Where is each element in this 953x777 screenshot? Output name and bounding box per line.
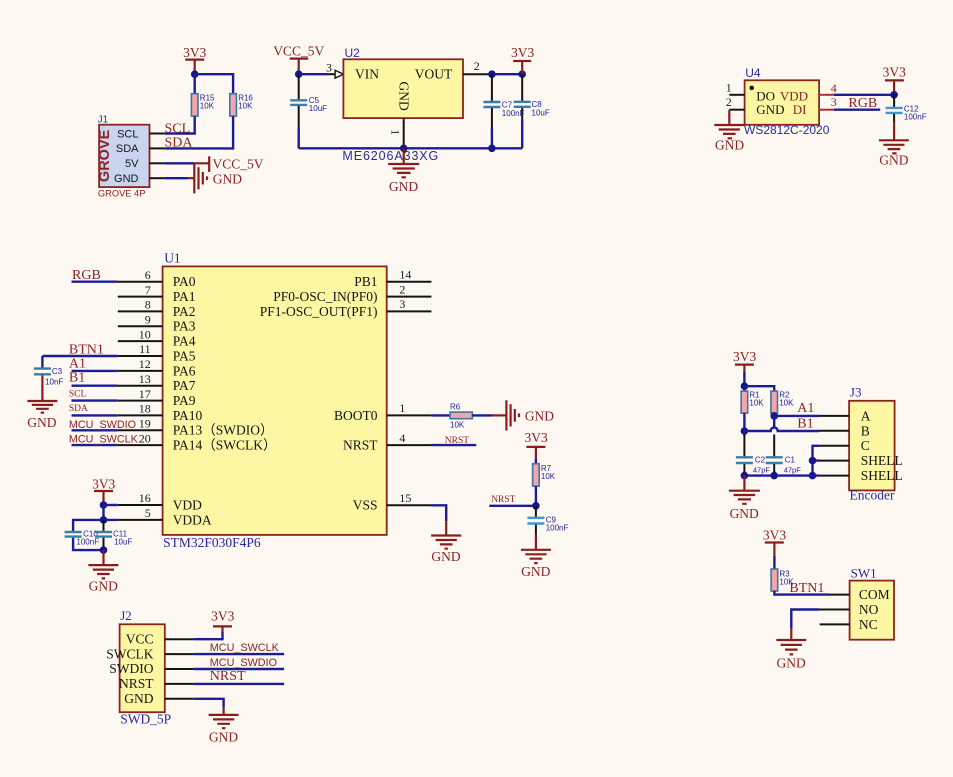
svg-text:B1: B1	[797, 417, 813, 432]
svg-text:SHELL: SHELL	[861, 453, 903, 468]
wire R6 to ground flag	[472, 414, 492, 416]
pin 2 PF0-OSC_IN of U1	[387, 282, 432, 296]
power flag VCC_5V (at U2 input)	[273, 44, 324, 74]
svg-text:100nF: 100nF	[76, 538, 99, 547]
ground symbol (below C3)	[27, 375, 57, 429]
junction node SHELL2	[809, 472, 817, 480]
pin 12 PA6 of U1	[118, 357, 163, 371]
wire net SCL to PA9	[72, 399, 118, 401]
svg-text:GND: GND	[525, 409, 554, 424]
pin 7 PA1 of U1	[118, 283, 163, 297]
pin 14 PB1 of U1	[387, 268, 432, 282]
svg-text:GND: GND	[431, 549, 460, 564]
wire net B1 to pin B of J3 (hop over R2 line)	[744, 428, 819, 432]
svg-text:U4: U4	[745, 66, 761, 80]
pin 9 PA3 of U1	[118, 313, 163, 327]
wire 3V3 junction to R16 top	[195, 74, 233, 94]
pin 2 SWCLK of J2	[165, 653, 194, 655]
wire net MCU_SWCLK to PA14	[72, 444, 118, 446]
wire 5V pin to VCC_5V flag	[164, 162, 194, 164]
svg-text:SCL: SCL	[165, 122, 191, 137]
svg-text:DI: DI	[793, 102, 807, 117]
svg-text:20: 20	[139, 431, 151, 445]
switch SW1	[850, 565, 894, 639]
pin B of J3	[819, 430, 849, 432]
svg-text:NC: NC	[859, 617, 878, 632]
ground flag (at R6, right-pointing)	[492, 400, 554, 430]
capacitor C3 10nF	[34, 356, 64, 387]
svg-text:GND: GND	[397, 82, 412, 111]
ground symbol (below SW1)	[776, 628, 806, 671]
svg-text:GND: GND	[114, 173, 139, 185]
svg-text:3: 3	[399, 297, 405, 311]
svg-text:12: 12	[139, 357, 151, 371]
svg-text:BTN1: BTN1	[69, 343, 104, 358]
capacitor C8 10uF	[514, 74, 550, 148]
wire GND pin of J1 to ground	[164, 177, 188, 179]
svg-text:A1: A1	[69, 356, 86, 371]
ground symbol (below VSS)	[431, 521, 461, 564]
svg-text:MCU_SWCLK: MCU_SWCLK	[69, 434, 139, 446]
svg-text:NRST: NRST	[119, 676, 154, 691]
wire SHELL1 row	[813, 459, 820, 461]
pin 5 VDDA of U1	[118, 506, 163, 520]
junction node 3V3/R15/R16	[191, 70, 199, 78]
junction node R2/A1	[770, 412, 778, 420]
svg-text:SCL: SCL	[117, 128, 138, 140]
svg-text:MCU_SWDIO: MCU_SWDIO	[69, 419, 136, 431]
svg-text:NRST: NRST	[445, 436, 469, 446]
junction node C10/C11/ground	[100, 546, 108, 554]
resistor R2 10K	[771, 391, 794, 413]
power flag 3V3 (at SW1/R3)	[763, 527, 786, 556]
pin 4 VDD of U4	[819, 81, 837, 95]
svg-text:47pF: 47pF	[784, 466, 802, 475]
wire net B1 to PA7	[72, 385, 118, 387]
svg-text:GROVE: GROVE	[97, 129, 113, 182]
svg-text:100nF: 100nF	[546, 524, 569, 533]
svg-text:10K: 10K	[450, 420, 465, 429]
resistor R16 10K	[230, 93, 254, 116]
junction node VOUT/C7	[488, 70, 496, 78]
pin 10 PA4 of U1	[118, 327, 163, 341]
wire R1 bottom to B row junction	[743, 413, 745, 431]
svg-text:10K: 10K	[200, 101, 215, 110]
svg-text:GND: GND	[124, 691, 153, 706]
svg-text:PA6: PA6	[173, 363, 196, 378]
svg-text:VDD: VDD	[780, 88, 808, 103]
wire VCC_5V junction to U2 VIN pin	[299, 73, 327, 75]
wire ground rail under J3	[744, 474, 819, 476]
ground symbol (below C10/C11)	[88, 550, 118, 593]
junction node 3V3/C8	[518, 70, 526, 78]
pin 5 GND of J2	[165, 698, 194, 700]
svg-text:VCC_5V: VCC_5V	[213, 157, 264, 172]
svg-text:C: C	[861, 438, 870, 453]
wire R2 bottom to A row junction	[773, 413, 775, 416]
svg-text:VCC: VCC	[126, 631, 154, 646]
svg-text:100nF: 100nF	[502, 109, 525, 118]
svg-text:10: 10	[139, 327, 151, 341]
wire net MCU_SWCLK (at J2)	[194, 653, 284, 655]
pin SHELL1 of J3	[819, 460, 849, 462]
svg-text:J1: J1	[98, 114, 109, 125]
wire BOOT0 to R6	[431, 414, 450, 416]
wire R16 bottom to SDA pin of J1	[164, 116, 233, 148]
pin 4 NRST of U1	[387, 431, 432, 445]
svg-text:C1: C1	[785, 456, 796, 465]
svg-text:3: 3	[831, 95, 837, 109]
wire 3V3 to R7 top	[535, 459, 537, 464]
ground flag (J1, right-pointing)	[188, 163, 242, 193]
wire net BTN1 to PA5 (with C3 branch)	[42, 355, 117, 357]
svg-text:J2: J2	[120, 608, 132, 623]
svg-text:2: 2	[474, 59, 480, 73]
svg-text:PA14（SWCLK）: PA14（SWCLK）	[173, 438, 277, 453]
svg-text:100nF: 100nF	[904, 113, 927, 122]
svg-text:GND: GND	[756, 102, 784, 117]
svg-text:10K: 10K	[541, 472, 556, 481]
capacitor C5 10uF	[290, 74, 327, 148]
pin 17 PA9 of U1	[118, 387, 163, 401]
svg-text:10K: 10K	[238, 101, 253, 110]
wire VDDA junction to pin and left branch to C10	[73, 520, 118, 532]
svg-text:14: 14	[399, 268, 411, 282]
svg-text:PF0-OSC_IN(PF0): PF0-OSC_IN(PF0)	[273, 289, 377, 304]
svg-text:ME6206A33XG: ME6206A33XG	[342, 149, 439, 163]
resistor R6 10K	[450, 403, 472, 430]
wire junction to R2 top	[744, 386, 774, 391]
wire net NRST (at J2)	[194, 683, 284, 685]
svg-text:BTN1: BTN1	[789, 581, 824, 596]
svg-text:3: 3	[326, 61, 332, 75]
ground symbol (below U4)	[714, 125, 744, 152]
svg-text:16: 16	[139, 491, 151, 505]
svg-text:PA3: PA3	[173, 319, 196, 334]
wire 3V3 to R3 top	[773, 556, 775, 569]
svg-text:PA9: PA9	[173, 393, 196, 408]
svg-text:10K: 10K	[779, 399, 794, 408]
capacitor C10 100nF	[65, 530, 104, 551]
svg-text:1: 1	[388, 129, 402, 135]
LED U4 WS2812C-2020	[744, 66, 830, 137]
svg-text:3V3: 3V3	[883, 65, 906, 80]
junction node C7 / rail	[488, 145, 496, 153]
svg-text:C2: C2	[755, 456, 766, 465]
ground symbol (below J2)	[209, 707, 239, 745]
svg-text:3V3: 3V3	[511, 45, 534, 60]
svg-text:NRST: NRST	[343, 438, 378, 453]
svg-text:J3: J3	[850, 385, 862, 400]
capacitor C2 47pF	[736, 456, 771, 476]
pin 11 PA5 of U1	[118, 342, 163, 356]
connector J2 SWD_5P	[106, 608, 171, 727]
svg-text:NO: NO	[859, 602, 879, 617]
power flag 3V3 (at J3 pullups)	[733, 349, 756, 372]
svg-text:GND: GND	[715, 137, 744, 152]
svg-text:GND: GND	[776, 656, 805, 671]
svg-text:PA5: PA5	[173, 348, 196, 363]
pin 2 GND of U4	[726, 95, 745, 110]
svg-text:3V3: 3V3	[733, 349, 756, 364]
svg-text:47pF: 47pF	[753, 466, 771, 475]
wire NO pin to ground	[791, 610, 819, 629]
svg-text:3V3: 3V3	[92, 477, 115, 492]
pin NC of SW1 (unconnected stub)	[820, 623, 850, 625]
capacitor C1 47pF	[766, 456, 802, 476]
power flag 3V3 (at R7)	[524, 430, 547, 459]
connector J1 GROVE 4P	[97, 114, 150, 198]
svg-text:18: 18	[139, 402, 151, 416]
wire net NRST (at R7/C9)	[489, 505, 536, 507]
svg-text:Encoder: Encoder	[850, 488, 895, 503]
svg-text:GND: GND	[389, 179, 418, 194]
svg-text:10K: 10K	[749, 399, 764, 408]
svg-text:SWDIO: SWDIO	[109, 661, 153, 676]
wire net NRST (at U1 pin 4)	[431, 444, 476, 446]
wire net MCU_SWDIO (at J2)	[194, 668, 284, 670]
wire VCC to 3V3 flag	[194, 632, 223, 639]
svg-text:VDD: VDD	[173, 497, 202, 512]
wire 3V3 to R1/R2 junction	[743, 372, 745, 386]
svg-text:9: 9	[145, 313, 151, 327]
svg-text:PA7: PA7	[173, 378, 196, 393]
svg-text:NRST: NRST	[210, 669, 246, 684]
capacitor C9 100nF	[527, 506, 568, 535]
pin 2 VOUT of U2	[463, 59, 489, 74]
svg-text:WS2812C-2020: WS2812C-2020	[744, 123, 830, 137]
svg-text:5: 5	[145, 506, 151, 520]
pin 3 DI of U4	[819, 95, 837, 110]
svg-text:MCU_SWCLK: MCU_SWCLK	[210, 642, 280, 654]
connector J3 Encoder	[849, 385, 903, 503]
svg-text:SDA: SDA	[165, 136, 194, 151]
pin A of J3	[819, 415, 849, 417]
wire U4 pin2 down to ground	[728, 110, 730, 125]
resistor R3 10K	[771, 569, 794, 591]
pin 1 GND of U2	[388, 118, 403, 148]
pin 8 PA2 of U1	[118, 298, 163, 312]
svg-text:VCC_5V: VCC_5V	[273, 44, 324, 59]
pin 3 PF1-OSC_OUT of U1	[387, 297, 432, 311]
wire GND pin of J2 to ground	[194, 699, 224, 707]
svg-text:4: 4	[831, 81, 837, 95]
svg-text:8: 8	[145, 298, 151, 312]
svg-text:GND: GND	[879, 153, 908, 168]
pin 19 PA13 of U1	[118, 417, 163, 431]
wire net MCU_SWDIO to PA13	[72, 429, 118, 431]
pin C of J3	[819, 445, 849, 447]
wire DI pin (net RGB)	[834, 108, 880, 110]
svg-text:VIN: VIN	[355, 66, 379, 81]
svg-text:10uF: 10uF	[532, 108, 550, 117]
svg-text:10uF: 10uF	[114, 538, 132, 547]
svg-text:2: 2	[726, 95, 732, 109]
pin 4 NRST of J2	[165, 683, 194, 685]
svg-text:GND: GND	[730, 506, 759, 521]
svg-text:SCL: SCL	[69, 390, 87, 400]
junction node C1/rail	[770, 472, 778, 480]
wire R1 line down to C2	[743, 431, 745, 436]
svg-text:PA4: PA4	[173, 334, 196, 349]
power flag VCC_5V (at J1)	[194, 156, 263, 172]
svg-text:4: 4	[399, 431, 405, 445]
resistor R7 10K	[533, 464, 556, 486]
wire R7 bottom to NRST junction	[535, 486, 537, 506]
pin 3 SWDIO of J2	[165, 668, 194, 670]
svg-text:VDDA: VDDA	[173, 512, 212, 527]
junction node U2 GND pin / rail	[400, 145, 408, 153]
pin 3 5V of J1	[150, 162, 165, 164]
pin 16 VDD of U1	[118, 491, 163, 505]
capacitor C11 10uF	[95, 520, 132, 550]
junction node 3V3/R1/R2	[741, 382, 749, 390]
ground symbol (below C12)	[879, 122, 909, 168]
junction node R1/B1	[741, 427, 749, 435]
pin 18 PA10 of U1	[118, 402, 163, 416]
svg-text:7: 7	[145, 283, 151, 297]
svg-text:6: 6	[145, 268, 151, 282]
pin 2 SDA of J1	[150, 147, 165, 149]
power flag 3V3 (at U4/C12)	[883, 65, 906, 95]
svg-text:SDA: SDA	[69, 404, 88, 414]
svg-text:PA10: PA10	[173, 408, 203, 423]
svg-text:SWCLK: SWCLK	[106, 646, 154, 661]
svg-text:PA2: PA2	[173, 304, 196, 319]
svg-text:COM: COM	[859, 587, 890, 602]
svg-text:19: 19	[139, 417, 151, 431]
wire VDD pin to 3V3 junction	[834, 94, 894, 96]
pin 1 SCL of J1	[150, 133, 165, 135]
svg-text:PB1: PB1	[354, 274, 377, 289]
svg-text:SHELL: SHELL	[861, 468, 903, 483]
svg-text:3V3: 3V3	[524, 430, 547, 445]
svg-text:SW1: SW1	[851, 565, 877, 580]
svg-text:3V3: 3V3	[763, 527, 786, 542]
pin COM of SW1	[829, 594, 850, 596]
svg-text:15: 15	[399, 491, 411, 505]
pin SHELL2 of J3	[819, 475, 849, 477]
resistor R1 10K	[741, 391, 764, 413]
svg-text:10uF: 10uF	[309, 104, 327, 113]
wire net A1 to pin A of J3	[774, 415, 819, 417]
pin 6 PA0 of U1	[118, 268, 163, 282]
svg-text:B1: B1	[69, 370, 85, 385]
resistor R15 10K	[191, 93, 215, 116]
wire R3 bottom to COM pin (net BTN1)	[774, 591, 829, 595]
power flag 3V3 (above R15/R16)	[183, 45, 206, 74]
pin 1 BOOT0 of U1	[387, 401, 432, 415]
svg-text:PF1-OSC_OUT(PF1): PF1-OSC_OUT(PF1)	[260, 304, 378, 319]
junction node VDDA/C10/C11	[100, 516, 108, 524]
svg-text:13: 13	[139, 372, 151, 386]
svg-text:VSS: VSS	[353, 498, 378, 513]
junction node 3V3/C12	[890, 91, 898, 99]
wire 3V3 junction to VDD pin	[104, 504, 118, 506]
svg-text:R6: R6	[450, 403, 461, 412]
wire VOUT to 3V3 rail	[489, 73, 522, 75]
capacitor C7 100nF	[483, 74, 524, 148]
wire VSS to ground	[431, 505, 447, 521]
pin 4 GND of J1	[150, 177, 165, 179]
svg-text:BOOT0: BOOT0	[334, 408, 378, 423]
svg-text:DO: DO	[756, 88, 775, 103]
pin NO of SW1	[820, 609, 850, 611]
svg-text:GND: GND	[27, 415, 56, 430]
pin 15 VSS of U1	[387, 491, 431, 505]
junction node NRST/R7/C9	[532, 502, 540, 510]
junction node C2/rail	[741, 472, 749, 480]
svg-text:C3: C3	[52, 367, 63, 376]
svg-text:NRST: NRST	[491, 495, 515, 505]
svg-text:SDA: SDA	[116, 143, 139, 155]
wire net A1 to PA6	[72, 370, 118, 372]
wire net SDA to PA10	[72, 414, 118, 416]
junction node C/SHELL1	[809, 457, 817, 465]
svg-text:3V3: 3V3	[211, 609, 234, 624]
svg-text:STM32F030F4P6: STM32F030F4P6	[163, 535, 261, 550]
svg-text:2: 2	[399, 282, 405, 296]
svg-text:1: 1	[399, 401, 405, 415]
wire R15 bottom to SCL pin of J1	[164, 116, 194, 133]
wire VDD junction down to VDDA row	[102, 505, 104, 520]
junction node 3V3/VDD	[100, 501, 108, 509]
pin 3 VIN of U2 (with input triangle)	[326, 61, 343, 79]
junction node VCC_5V/C5/VIN	[295, 70, 303, 78]
power flag 3V3 (at J2)	[211, 609, 234, 633]
svg-text:RGB: RGB	[72, 268, 101, 283]
svg-text:GND: GND	[521, 564, 550, 579]
svg-text:3V3: 3V3	[183, 45, 206, 60]
svg-text:GND: GND	[209, 730, 238, 745]
power flag 3V3 (at U1 VDD)	[92, 477, 115, 505]
wire junction to R1 top	[743, 386, 745, 391]
svg-text:PA0: PA0	[173, 274, 196, 289]
capacitor C12 100nF	[886, 95, 927, 122]
svg-text:11: 11	[139, 342, 151, 356]
svg-text:10nF: 10nF	[45, 378, 63, 387]
svg-text:17: 17	[139, 387, 151, 401]
wire R2 line down through hop to C1	[773, 416, 775, 428]
svg-text:A1: A1	[797, 401, 814, 416]
svg-text:GND: GND	[213, 172, 242, 187]
ground symbol (below U2)	[388, 148, 419, 194]
svg-text:U2: U2	[345, 46, 361, 60]
wire net RGB to PA0	[72, 281, 118, 283]
pin 13 PA7 of U1	[118, 372, 163, 386]
MCU U1 STM32F030F4P6	[163, 251, 387, 551]
svg-text:GND: GND	[89, 579, 118, 594]
svg-text:VOUT: VOUT	[415, 66, 453, 81]
svg-text:1: 1	[726, 81, 732, 95]
svg-text:SWD_5P: SWD_5P	[120, 712, 171, 727]
ground symbol (below C9)	[521, 535, 551, 579]
svg-text:U1: U1	[164, 251, 181, 266]
wire ground rail under U2	[299, 147, 523, 149]
power flag 3V3 (at U2 output)	[511, 45, 534, 74]
svg-text:A: A	[861, 408, 871, 423]
svg-text:MCU_SWDIO: MCU_SWDIO	[210, 657, 277, 669]
svg-text:GROVE 4P: GROVE 4P	[98, 189, 146, 199]
pin 1 VCC of J2	[165, 638, 194, 640]
svg-text:RGB: RGB	[848, 96, 877, 111]
svg-text:PA13（SWDIO）: PA13（SWDIO）	[173, 423, 274, 438]
pin 1 DO of U4	[726, 81, 745, 95]
wire pin C down to SHELL rows	[813, 446, 820, 476]
regulator U2 ME6206A33XG	[342, 46, 463, 163]
svg-text:PA1: PA1	[173, 289, 196, 304]
pin 20 PA14 of U1	[118, 431, 163, 445]
